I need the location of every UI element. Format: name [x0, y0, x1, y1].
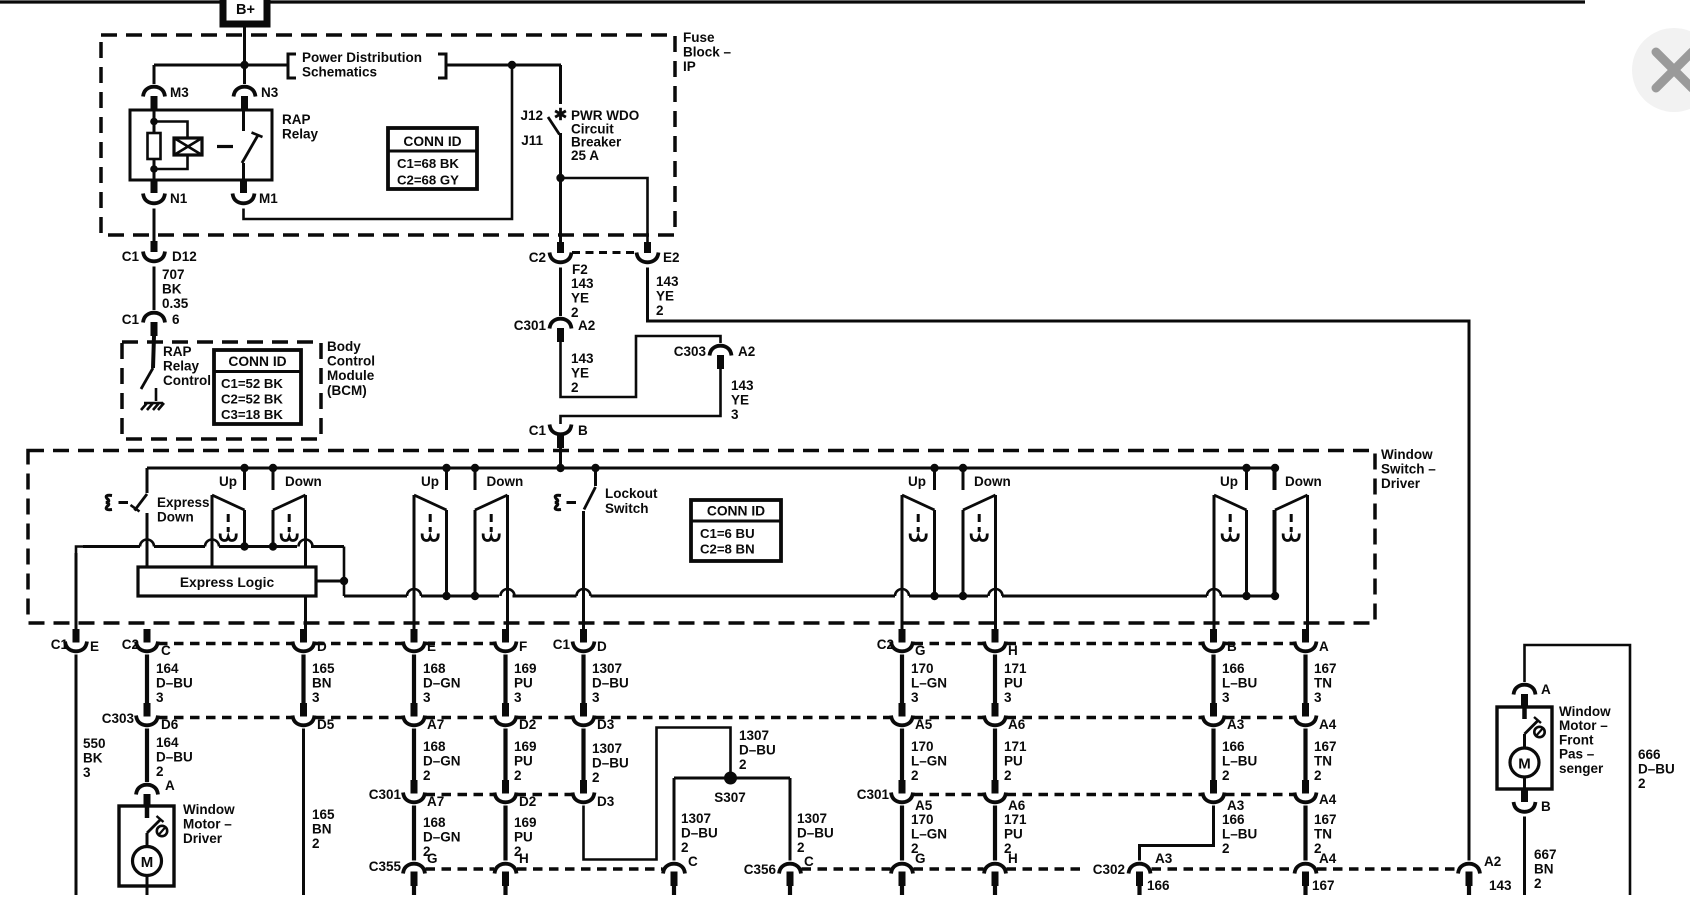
- svg-text:2: 2: [656, 303, 664, 318]
- wire breaker to C2-F2: [559, 133, 562, 242]
- svg-text:D: D: [317, 639, 327, 654]
- connector C301 pin A4: [1295, 780, 1337, 807]
- switch rear-window Up/Down (pair4): [1214, 464, 1308, 600]
- connector C1 pin D lockout: [553, 629, 607, 654]
- svg-text:PU: PU: [514, 830, 533, 845]
- switch passenger-window Up/Down (pair3): [902, 464, 996, 600]
- svg-text:E2: E2: [663, 250, 680, 265]
- svg-text:D2: D2: [519, 794, 536, 809]
- label wire 166 L-BU (below C302): [1147, 878, 1182, 900]
- svg-text:Schematics: Schematics: [302, 65, 377, 80]
- connector C303 pin A2: [674, 344, 756, 369]
- svg-text:C301: C301: [514, 318, 547, 333]
- svg-text:E: E: [90, 639, 99, 654]
- svg-text:TN: TN: [1314, 754, 1332, 769]
- svg-text:RAP: RAP: [163, 344, 192, 359]
- svg-text:C2=68 GY: C2=68 GY: [397, 173, 459, 188]
- svg-text:YE: YE: [731, 393, 749, 408]
- label wire 164 D-BU 2: [156, 735, 193, 779]
- wire 166 L-BU (2): [1211, 729, 1215, 781]
- connector C302 pin A2: [1458, 854, 1501, 895]
- svg-text:L–GN: L–GN: [911, 754, 947, 769]
- svg-text:707: 707: [162, 267, 185, 282]
- svg-text:D2: D2: [519, 717, 536, 732]
- svg-text:S307: S307: [714, 790, 746, 805]
- label wire 143 YE 3 (C303): [731, 378, 754, 422]
- svg-text:168: 168: [423, 815, 446, 830]
- svg-text:M: M: [141, 854, 154, 871]
- label C301 left: [369, 787, 402, 802]
- relay switch contact blade: [242, 110, 263, 163]
- wire top border line: [0, 0, 1585, 3]
- wire relay switch lower leg: [242, 163, 245, 180]
- svg-text:Switch: Switch: [605, 501, 649, 516]
- svg-text:D–BU: D–BU: [156, 750, 193, 765]
- connector C356 pin G: [891, 864, 913, 895]
- connector C303 pin D2: [495, 703, 537, 732]
- splice S307: [714, 772, 746, 806]
- svg-text:C1: C1: [529, 423, 547, 438]
- svg-text:PU: PU: [1004, 676, 1023, 691]
- svg-text:Driver: Driver: [1381, 476, 1421, 491]
- svg-text:TN: TN: [1314, 676, 1332, 691]
- svg-text:164: 164: [156, 661, 179, 676]
- svg-text:BN: BN: [312, 676, 332, 691]
- svg-text:A2: A2: [1484, 854, 1501, 869]
- svg-text:170: 170: [911, 812, 934, 827]
- wire breaker to E2: [561, 178, 648, 242]
- label Down (pair2): [487, 474, 524, 489]
- svg-text:2: 2: [797, 840, 805, 855]
- switch express down: [106, 468, 210, 525]
- svg-text:2: 2: [1534, 876, 1542, 891]
- wire up-left pair1 through hop into express logic: [205, 495, 219, 572]
- label wire 167 TN 2 (lower): [1314, 812, 1337, 856]
- node Power Distribution Schematics reference: [288, 50, 446, 80]
- wire B+ to junction: [243, 24, 246, 65]
- connector C1 pin 6: [122, 312, 180, 336]
- svg-text:G: G: [915, 851, 926, 866]
- svg-text:Switch –: Switch –: [1381, 462, 1436, 477]
- connector C303 pin D6: [102, 703, 179, 732]
- svg-text:1307: 1307: [797, 811, 827, 826]
- svg-text:143: 143: [571, 276, 594, 291]
- conn id table BCM: [214, 350, 301, 424]
- connector C355 pin C: [663, 854, 698, 895]
- wire 170 L-GN (2b): [900, 806, 904, 861]
- svg-text:C303: C303: [674, 344, 707, 359]
- label wire 167 TN 2: [1314, 739, 1337, 783]
- svg-text:0.35: 0.35: [162, 296, 189, 311]
- svg-text:143: 143: [731, 378, 754, 393]
- svg-text:PU: PU: [1004, 754, 1023, 769]
- svg-text:M1: M1: [259, 191, 278, 206]
- svg-text:3: 3: [1004, 690, 1012, 705]
- label wire 166 L-BU 2 (lower): [1222, 812, 1257, 856]
- svg-text:D–BU: D–BU: [681, 826, 718, 841]
- label Fuse Block - IP: [683, 30, 732, 74]
- svg-text:senger: senger: [1559, 761, 1604, 776]
- svg-text:J12: J12: [520, 108, 543, 123]
- connector pin N1: [143, 180, 188, 206]
- svg-text:3: 3: [514, 690, 522, 705]
- wire up-left pair3 to pin G: [895, 495, 909, 629]
- svg-text:BK: BK: [162, 282, 182, 297]
- svg-text:166: 166: [1147, 878, 1170, 893]
- svg-text:2: 2: [592, 770, 600, 785]
- label wire 707 BK 0.35: [162, 267, 189, 311]
- svg-text:167: 167: [1312, 878, 1335, 893]
- label wire 169 PU 2 (lower): [514, 815, 537, 859]
- wire C303 to C1-B: [561, 369, 721, 424]
- svg-text:166: 166: [1222, 739, 1245, 754]
- svg-text:F2: F2: [572, 262, 588, 277]
- svg-text:3: 3: [1314, 690, 1322, 705]
- wire 168 D-GN (2b): [412, 806, 416, 861]
- connector row C2 dashed boundary (row1): [158, 642, 1295, 645]
- svg-text:A6: A6: [1008, 717, 1026, 732]
- label wire 143 YE 2 (C301): [571, 351, 594, 395]
- wire 165 BN (3): [301, 655, 305, 704]
- label wire 168 D-GN 2: [423, 739, 461, 783]
- wire C301-A2 to C303: [561, 336, 721, 397]
- svg-text:Down: Down: [157, 510, 194, 525]
- svg-text:Body: Body: [327, 339, 361, 354]
- switch RAP relay control: [141, 336, 211, 401]
- svg-text:A3: A3: [1155, 851, 1173, 866]
- label wire 666 D-BU 2: [1638, 747, 1675, 791]
- svg-text:D12: D12: [172, 249, 197, 264]
- svg-text:143: 143: [571, 351, 594, 366]
- svg-text:166: 166: [1222, 812, 1245, 827]
- svg-text:A5: A5: [915, 717, 933, 732]
- svg-text:164: 164: [156, 735, 179, 750]
- label wire 143 YE (below C302): [1489, 878, 1512, 900]
- relay coil symbol crossed box: [174, 138, 202, 155]
- svg-text:165: 165: [312, 661, 335, 676]
- junction dot supply at B: [556, 464, 564, 472]
- wire 167 TN (2b): [1303, 806, 1307, 861]
- label wire 1307 D-BU 2 (left branch): [681, 811, 718, 855]
- svg-text:E: E: [427, 639, 436, 654]
- svg-text:A2: A2: [578, 318, 595, 333]
- resistor R relay internal: [148, 133, 161, 159]
- connector C356 pin C: [744, 854, 814, 895]
- wire 164 D-BU (3): [145, 655, 149, 704]
- label wire 1307 D-BU 3: [592, 661, 629, 705]
- wire 169 PU (2): [503, 729, 507, 781]
- label wire 171 PU 2 (lower): [1004, 812, 1027, 856]
- svg-text:167: 167: [1314, 661, 1337, 676]
- connector pin N3: [234, 85, 279, 110]
- wire relay coil left leg: [153, 110, 156, 180]
- svg-text:Window: Window: [183, 802, 235, 817]
- svg-text:Up: Up: [908, 474, 926, 489]
- label wire 667 BN 2: [1534, 847, 1557, 891]
- svg-text:G: G: [915, 643, 926, 658]
- wire connector boundary F2-E2: [572, 251, 637, 254]
- svg-text:A: A: [1541, 682, 1551, 697]
- label C301 right: [857, 787, 890, 802]
- connector window motor passenger pin A: [1514, 682, 1552, 706]
- wire lockout to pin D: [577, 511, 591, 629]
- logic module Express Logic: [138, 567, 316, 596]
- svg-text:170: 170: [911, 661, 934, 676]
- junction dot coil bottom: [150, 165, 158, 173]
- connector C301 pin D3: [573, 780, 615, 809]
- wire F2 down: [559, 268, 562, 317]
- svg-text:143: 143: [656, 274, 679, 289]
- connector C303 pin A6: [984, 703, 1026, 732]
- svg-text:A4: A4: [1319, 717, 1337, 732]
- svg-text:2: 2: [423, 768, 431, 783]
- connector C303 pin A4: [1295, 703, 1337, 732]
- svg-text:BK: BK: [83, 751, 103, 766]
- wire 171 PU (2b): [993, 806, 997, 861]
- wire 171 PU (2): [993, 729, 997, 781]
- svg-text:C1: C1: [51, 637, 69, 652]
- label pin A4 (C302): [1319, 851, 1337, 866]
- label wire 166 L-BU 3: [1222, 661, 1257, 705]
- svg-text:BN: BN: [312, 822, 332, 837]
- svg-text:L–GN: L–GN: [911, 676, 947, 691]
- connector C2 pin F2: [529, 242, 588, 277]
- svg-text:M: M: [1518, 756, 1531, 773]
- label Up (pair3): [908, 474, 926, 489]
- wire 1307 D-BU (3): [581, 655, 585, 704]
- wire B into switch: [559, 448, 562, 468]
- wire D12 to C1-6: [153, 267, 156, 311]
- relay K1 RAP Relay box: [130, 110, 319, 180]
- svg-text:Control: Control: [327, 354, 375, 369]
- wire switch supply bus: [147, 468, 1274, 490]
- connector C2 pin E: [403, 629, 436, 654]
- svg-text:A: A: [165, 778, 175, 793]
- svg-text:B: B: [578, 423, 588, 438]
- label wire 550 BK 3: [83, 736, 106, 780]
- label pin G (C355): [427, 851, 438, 866]
- body control module BCM dashed box: [122, 339, 375, 439]
- svg-text:C1: C1: [122, 312, 140, 327]
- svg-text:YE: YE: [656, 289, 674, 304]
- wire 1307 D-BU (2): [581, 729, 585, 781]
- svg-text:Motor –: Motor –: [183, 817, 232, 832]
- svg-text:2: 2: [514, 768, 522, 783]
- label wire 169 PU 3: [514, 661, 537, 705]
- svg-text:TN: TN: [1314, 827, 1332, 842]
- svg-text:3: 3: [1222, 690, 1230, 705]
- label wire 1307 D-BU 2: [592, 741, 629, 785]
- svg-text:PU: PU: [514, 754, 533, 769]
- svg-text:1307: 1307: [592, 661, 622, 676]
- svg-text:G: G: [427, 851, 438, 866]
- label wire 169 PU 2: [514, 739, 537, 783]
- svg-text:D–BU: D–BU: [739, 743, 776, 758]
- label wire 166 L-BU 2: [1222, 739, 1257, 783]
- svg-text:168: 168: [423, 739, 446, 754]
- label pin H (C355): [519, 851, 529, 866]
- label Up (pair1): [219, 474, 237, 489]
- connector C2 pin A: [1295, 629, 1330, 654]
- wire 167 TN (3): [1303, 655, 1307, 704]
- svg-text:143: 143: [1489, 878, 1512, 893]
- svg-text:C1=6 BU: C1=6 BU: [700, 526, 755, 541]
- label wire 165 BN 2: [312, 807, 335, 851]
- wire 170 L-GN (3): [900, 655, 904, 704]
- svg-text:2: 2: [911, 768, 919, 783]
- connector C303 pin D5: [293, 703, 335, 732]
- svg-text:RAP: RAP: [282, 112, 311, 127]
- label wire 167 TN (below C302): [1312, 878, 1335, 900]
- wire 169 PU (3): [503, 655, 507, 704]
- junction dot coil top: [150, 118, 158, 126]
- svg-text:D3: D3: [597, 717, 615, 732]
- svg-text:C302: C302: [1093, 862, 1125, 877]
- connector C1 pin B switch feed: [529, 423, 588, 448]
- wire down-right pair2 to pin F: [501, 495, 515, 629]
- svg-text:C1=52 BK: C1=52 BK: [221, 376, 283, 391]
- svg-text:Up: Up: [421, 474, 439, 489]
- label pin H (row4): [1008, 851, 1018, 866]
- svg-text:666: 666: [1638, 747, 1661, 762]
- svg-text:Pas –: Pas –: [1559, 747, 1595, 762]
- junction dot B+ node: [240, 61, 248, 69]
- svg-text:3: 3: [83, 765, 91, 780]
- svg-text:C: C: [688, 854, 698, 869]
- svg-text:N1: N1: [170, 191, 188, 206]
- svg-text:3: 3: [423, 690, 431, 705]
- svg-text:A5: A5: [915, 798, 933, 813]
- svg-text:168: 168: [423, 661, 446, 676]
- svg-text:Fuse: Fuse: [683, 30, 715, 45]
- connector C303 pin A3: [1203, 703, 1245, 732]
- svg-text:J11: J11: [521, 133, 543, 148]
- wire down-right pair1 through hop to pin D: [299, 495, 313, 629]
- svg-text:CONN ID: CONN ID: [707, 504, 765, 519]
- label wire 170 L-GN 2: [911, 739, 947, 783]
- svg-text:YE: YE: [571, 366, 589, 381]
- svg-text:169: 169: [514, 739, 537, 754]
- label wire 168 D-GN 2 (lower): [423, 815, 461, 859]
- switch driver-window Up (pair1): [212, 464, 306, 551]
- svg-text:Power Distribution: Power Distribution: [302, 50, 422, 65]
- label wire 171 PU 3: [1004, 661, 1027, 705]
- svg-text:2: 2: [1004, 768, 1012, 783]
- connector pin M3: [143, 85, 189, 110]
- label Down (pair1): [285, 474, 322, 489]
- connector C302 pin A4: [1295, 864, 1317, 895]
- svg-text:L–BU: L–BU: [1222, 754, 1257, 769]
- svg-text:2: 2: [571, 380, 579, 395]
- svg-text:166: 166: [1222, 661, 1245, 676]
- wire switch lower bus: [344, 510, 1274, 596]
- svg-text:N3: N3: [261, 85, 279, 100]
- svg-text:C: C: [804, 854, 814, 869]
- wire 169 PU (2b): [503, 806, 507, 861]
- wire pair1 lower bus: [76, 547, 344, 630]
- wire 164 D-BU (2): [145, 729, 149, 783]
- connector C1 pin E: [51, 629, 99, 654]
- svg-text:170: 170: [911, 739, 934, 754]
- wire 1307 D-BU to S307: [584, 728, 731, 860]
- svg-text:2: 2: [739, 757, 747, 772]
- svg-text:C2: C2: [877, 637, 894, 652]
- junction dot breaker feed node: [508, 61, 516, 69]
- label wire 165 BN 3: [312, 661, 335, 705]
- conn id table window switch: [691, 500, 781, 561]
- svg-text:F: F: [519, 639, 527, 654]
- svg-text:Down: Down: [487, 474, 524, 489]
- wire motor driver low side: [146, 886, 149, 895]
- wire express down to logic: [140, 513, 154, 572]
- connector C303 pin A7: [403, 703, 444, 732]
- svg-text:IP: IP: [683, 59, 696, 74]
- connector C356 pin H: [984, 864, 1006, 895]
- svg-text:D–BU: D–BU: [797, 826, 834, 841]
- svg-text:2: 2: [1638, 776, 1646, 791]
- svg-text:C356: C356: [744, 862, 777, 877]
- svg-text:C3=18 BK: C3=18 BK: [221, 407, 283, 422]
- svg-text:D–BU: D–BU: [156, 676, 193, 691]
- label Window Switch - Driver: [1381, 447, 1436, 491]
- ground chassis symbol: [141, 403, 164, 410]
- connector C301 pin A2: [514, 318, 596, 342]
- svg-text:1307: 1307: [681, 811, 711, 826]
- wire splice branches: [674, 777, 790, 780]
- connector C301 pin D2: [495, 780, 537, 809]
- label Up (pair2): [421, 474, 439, 489]
- wire 170 L-GN (2): [900, 729, 904, 781]
- svg-text:B: B: [1541, 799, 1551, 814]
- wire up-left pair4 to pin B: [1207, 495, 1221, 629]
- svg-text:Motor –: Motor –: [1559, 718, 1608, 733]
- label Down (pair3): [974, 474, 1011, 489]
- UI close button: [1632, 28, 1690, 112]
- svg-text:Relay: Relay: [163, 359, 200, 374]
- label wire 171 PU 2: [1004, 739, 1027, 783]
- circuit breaker PWR WDO 25A: [520, 65, 639, 163]
- svg-text:D–BU: D–BU: [1638, 762, 1675, 777]
- svg-text:C303: C303: [102, 711, 135, 726]
- label Up (pair4): [1220, 474, 1238, 489]
- label Window Motor - Front Passenger: [1559, 704, 1611, 776]
- wire 166 L-BU to C302: [1140, 806, 1214, 861]
- wire 667 BN from motor B: [1523, 817, 1526, 896]
- label wire 1307 D-BU 2 (right branch): [797, 811, 834, 855]
- svg-text:A4: A4: [1319, 851, 1337, 866]
- connector C301 pin A7: [403, 780, 444, 809]
- conn id table fuse block: [388, 128, 477, 189]
- wire 167 TN (2): [1303, 729, 1307, 781]
- label wire 167 TN 3: [1314, 661, 1337, 705]
- svg-text:Window: Window: [1559, 704, 1611, 719]
- svg-text:C301: C301: [857, 787, 890, 802]
- connector row C303 dashed boundary (row2): [158, 716, 1295, 719]
- connector window motor passenger pin B: [1514, 789, 1552, 814]
- svg-text:A3: A3: [1227, 717, 1245, 732]
- connector C301 pin A5: [891, 780, 933, 813]
- wire 168 D-GN (3): [412, 655, 416, 704]
- svg-text:25 A: 25 A: [571, 148, 599, 163]
- svg-text:PU: PU: [514, 676, 533, 691]
- wire splice to C356-C: [789, 778, 792, 861]
- svg-text:D6: D6: [161, 717, 179, 732]
- connector row C355/C356/C302 dashed boundary (row4): [426, 867, 1458, 870]
- connector C355 pin G: [403, 864, 425, 895]
- svg-text:C355: C355: [369, 859, 402, 874]
- svg-text:A3: A3: [1227, 798, 1245, 813]
- svg-text:L–BU: L–BU: [1222, 676, 1257, 691]
